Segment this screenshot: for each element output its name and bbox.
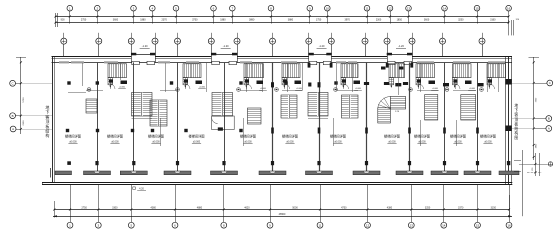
staircase lower flight x=131.5-152 [132, 93, 153, 117]
svg-text:A: A [548, 127, 550, 131]
svg-text:C: C [549, 81, 551, 85]
svg-text:11: 11 [318, 223, 321, 227]
structural axis line and footing at x=477.5 [464, 62, 491, 174]
right edge wall black fills [505, 79, 511, 131]
axis circle x=177.5 [175, 33, 181, 57]
svg-text:14: 14 [443, 6, 447, 10]
svg-text:46500: 46500 [279, 213, 286, 216]
svg-text:±0.000: ±0.000 [454, 141, 462, 144]
bottom right corner axis circle [548, 162, 552, 166]
small column squares upper row [67, 81, 483, 87]
svg-text:-1.20: -1.20 [398, 45, 404, 48]
landing box below stair B2 [212, 116, 235, 131]
svg-text:-0.060: -0.060 [260, 88, 267, 90]
svg-text:楼梯间详图: 楼梯间详图 [282, 134, 298, 139]
svg-text:4380: 4380 [387, 207, 393, 210]
window symbols in top band [59, 61, 505, 63]
staircase upper flight x=341-358 [341, 64, 358, 88]
staircase lower flight x=424.6-437.8 [425, 95, 438, 120]
svg-text:下: 下 [514, 109, 518, 113]
staircase lower flight x=212-232.5 [212, 93, 233, 117]
grid circle top axis 8 [268, 5, 274, 23]
bottom right corner dimension detail [519, 150, 548, 216]
svg-text:楼梯间详图: 楼梯间详图 [148, 134, 164, 139]
interior horizontal ledges [68, 91, 476, 119]
staircase lower flight x=86-97 [86, 99, 97, 113]
entry bay between axes 387 and 412 [387, 45, 413, 64]
svg-text:3160: 3160 [490, 19, 496, 22]
svg-text:1880: 1880 [220, 19, 226, 22]
bottom grid circle axis 13 [408, 185, 414, 229]
svg-text:1880: 1880 [140, 19, 146, 22]
svg-text:3150: 3150 [491, 207, 497, 210]
svg-text:16: 16 [507, 6, 511, 10]
staircase lower flight x=308-328 [308, 93, 328, 117]
grid circle top axis 4 [150, 5, 156, 23]
staircase upper flight x=108-126.5 [108, 64, 127, 88]
room label at x=156 [148, 134, 164, 144]
grid circle top axis 12 [387, 5, 393, 23]
svg-text:楼梯间详图: 楼梯间详图 [189, 134, 205, 139]
axis circle x=63.8 [61, 33, 67, 57]
left vertical dimension line [16, 57, 52, 134]
axis circle x=272.5 [270, 33, 276, 57]
grid circle top axis 5 [173, 5, 179, 23]
room label at x=338 [330, 134, 346, 144]
grid circle top axis 1 [67, 5, 73, 23]
svg-text:图: 图 [514, 136, 518, 140]
svg-text:C: C [12, 82, 14, 86]
structural axis line and footing at x=272.5 [259, 62, 286, 174]
entry bay between axes 308.8 and 331.3 [309, 45, 332, 64]
left axis circle C [10, 80, 21, 86]
building right edge wall [505, 56, 507, 185]
spiral staircase central unit [378, 97, 406, 124]
svg-text:±0.000: ±0.000 [69, 141, 77, 144]
svg-text:3970: 3970 [344, 19, 350, 22]
svg-text:11: 11 [365, 6, 368, 10]
structural axis line and footing at x=366.5 [353, 62, 380, 174]
bottom grid circle axis 9 [267, 185, 273, 229]
structural axis line and footing at x=224 [211, 62, 238, 174]
room label at x=73 [65, 134, 81, 144]
svg-text:10: 10 [326, 6, 330, 10]
svg-text:±0.000: ±0.000 [193, 141, 201, 144]
staircase upper flight x=282-300 [282, 64, 300, 88]
axis circle x=237 [234, 33, 240, 63]
bottom grid circle axis 12 [365, 185, 371, 229]
staircase lower flight x=281-297 [281, 95, 297, 118]
toilet fixtures [87, 88, 484, 92]
svg-text:3880: 3880 [288, 19, 294, 22]
right end footing [499, 161, 521, 175]
svg-text:顶: 顶 [514, 117, 518, 122]
axis circle x=131.3 [128, 33, 134, 63]
structural axis line and footing at x=319 [306, 62, 333, 174]
staircase upper flight x=183-201 [183, 64, 201, 88]
top dimension texts [61, 19, 496, 22]
bottom grid circle axis 6 [172, 185, 178, 229]
bottom grid circle axis 14 [441, 185, 447, 229]
svg-text:5700: 5700 [23, 97, 25, 103]
svg-text:1850: 1850 [397, 19, 403, 22]
svg-text:A: A [12, 127, 14, 131]
svg-text:13: 13 [407, 6, 411, 10]
bottom grid circle axis 16 [506, 185, 512, 229]
building left edge wall [52, 56, 54, 183]
svg-text:楼梯间详图: 楼梯间详图 [414, 134, 430, 139]
top right dimension tail [509, 19, 520, 35]
top dimension line upper [55, 13, 509, 27]
svg-text:5000: 5000 [292, 207, 298, 210]
svg-text:3600: 3600 [113, 19, 119, 22]
right axis circle C [534, 80, 553, 86]
small level labels in units [118, 87, 476, 91]
entry bay between axes 131.3 and 155 [131, 45, 155, 64]
svg-text:4880: 4880 [197, 207, 203, 210]
svg-text:-0.060: -0.060 [119, 87, 126, 89]
svg-text:地: 地 [514, 103, 518, 108]
svg-text:±0.000: ±0.000 [418, 141, 426, 144]
svg-text:15: 15 [475, 6, 479, 10]
bottom grid circle axis 11 [317, 185, 323, 229]
svg-text:3880: 3880 [249, 19, 255, 22]
bottom dimension texts and ticks [53, 207, 510, 217]
staircase lower flight x=341.5-358 [342, 95, 359, 118]
entry bay between axes 211.3 and 237 [211, 45, 237, 64]
svg-text:板: 板 [514, 121, 518, 126]
left axis circle B [10, 113, 21, 119]
grid circle top axis 6 [211, 5, 217, 23]
svg-text:客: 客 [514, 112, 518, 117]
svg-text:2750: 2750 [81, 19, 87, 22]
staircase lower flight x=460.8-475.6 [461, 95, 476, 120]
grid circle top axis 3 [131, 5, 137, 23]
bottom grid circle axis 1 [67, 185, 73, 229]
room label at x=392 [384, 134, 400, 144]
axis circle x=155 [152, 33, 158, 63]
central unit wall fills [381, 67, 404, 70]
svg-text:楼梯间详图: 楼梯间详图 [384, 134, 400, 139]
svg-text:±0.000: ±0.000 [244, 141, 252, 144]
room label at x=196.5 [189, 134, 205, 144]
room label at x=115 [107, 134, 123, 144]
axis circle x=412 [409, 33, 415, 63]
axis circle x=308.8 [306, 33, 312, 63]
grid circle top axis 9 [307, 5, 313, 23]
svg-text:3300: 3300 [112, 207, 118, 210]
left axis circle A [10, 126, 21, 132]
interior wall fill blocks [109, 80, 492, 85]
top dimension line lower [55, 22, 510, 24]
svg-text:14: 14 [442, 223, 446, 227]
building inner top wall line [52, 62, 513, 64]
svg-text:3250: 3250 [425, 207, 431, 210]
svg-text:±0.000: ±0.000 [484, 141, 492, 144]
bottom grid circle axis 15 [475, 185, 481, 229]
level label near bottom [133, 187, 146, 191]
svg-text:±0.000: ±0.000 [152, 141, 160, 144]
staircase lower flight x=247.5-261 [248, 108, 262, 124]
structural axis line and footing at x=409.5 [396, 62, 423, 174]
svg-text:4380: 4380 [150, 207, 156, 210]
bottom dimension lines [53, 195, 512, 218]
interior partition walls [83, 63, 499, 146]
svg-text:-1.20: -1.20 [319, 45, 325, 48]
grid circle top axis 14 [442, 5, 448, 23]
svg-text:构: 构 [514, 131, 518, 136]
svg-text:2100: 2100 [23, 120, 25, 126]
svg-text:4620: 4620 [244, 207, 250, 210]
staircase lower flight x=150-167 [150, 100, 167, 126]
grid circle top axis 15 [474, 5, 480, 23]
door swing arcs [110, 84, 495, 89]
svg-text:3370: 3370 [458, 207, 464, 210]
svg-text:12: 12 [388, 6, 392, 10]
bay side wall fills below inner line (bays 3,4) [308, 63, 414, 87]
axis circle x=331.3 [328, 33, 334, 63]
right vertical dimension line [512, 57, 539, 160]
building top outer wall pair (with gaps at bays) [52, 57, 513, 59]
room label at x=488 [480, 134, 496, 144]
svg-text:±0.000: ±0.000 [286, 141, 294, 144]
structural axis line and footing at x=97 [84, 62, 111, 174]
svg-text:-0.060: -0.060 [469, 88, 476, 90]
axis circle x=98.8 [96, 33, 102, 57]
svg-text:13: 13 [410, 223, 414, 227]
axis circle x=482 [479, 33, 485, 57]
svg-text:楼梯间详图: 楼梯间详图 [107, 134, 123, 139]
svg-text:构: 构 [45, 132, 49, 138]
svg-text:16: 16 [507, 223, 511, 227]
structural axis line and footing at x=444.5 [431, 62, 458, 174]
axis circle x=387 [384, 33, 390, 63]
svg-text:15: 15 [476, 223, 480, 227]
grid circle top axis 11 [364, 5, 370, 23]
svg-text:2300: 2300 [376, 19, 382, 22]
svg-text:4750: 4750 [341, 207, 347, 210]
bottom grid circle axis 8 [221, 185, 227, 229]
svg-text:3600: 3600 [424, 19, 430, 22]
structural axis line and footing at x=177.5 [164, 62, 191, 174]
isolated column square bottom left [67, 161, 71, 165]
svg-text:±0.000: ±0.000 [111, 141, 119, 144]
bottom grid circle axis 3 [95, 185, 101, 229]
svg-text:楼梯间详图: 楼梯间详图 [480, 134, 496, 139]
staircase upper flight x=487-505.5 [487, 64, 506, 88]
svg-text:楼梯间详图: 楼梯间详图 [240, 134, 256, 139]
staircase upper flight x=452.5-471 [453, 64, 472, 88]
svg-text:3250: 3250 [458, 19, 464, 22]
svg-text:2370: 2370 [161, 19, 167, 22]
svg-text:-0.060: -0.060 [355, 88, 362, 90]
svg-text:-1.20: -1.20 [223, 45, 229, 48]
svg-text:楼梯间详图: 楼梯间详图 [65, 134, 81, 139]
svg-text:3750: 3750 [192, 19, 198, 22]
left vertical title text [45, 104, 49, 138]
svg-text:±0.000: ±0.000 [334, 141, 342, 144]
room label at x=458 [450, 134, 466, 144]
svg-text:-0.060: -0.060 [199, 87, 206, 89]
svg-text:结: 结 [514, 126, 518, 131]
small column squares lower row [66, 128, 479, 134]
staircase upper flight x=416-434.5 [416, 64, 435, 88]
svg-text:-1.20: -1.20 [142, 45, 148, 48]
grid circle top axis 16 [506, 5, 512, 23]
right axis circle A [534, 126, 552, 132]
svg-text:±0.000: ±0.000 [388, 141, 396, 144]
structural axis line and footing at x=133.8 [120, 62, 147, 174]
svg-text:-0.060: -0.060 [296, 88, 303, 90]
svg-text:楼梯间详图: 楼梯间详图 [330, 134, 346, 139]
bottom grid circle axis 5 [128, 185, 134, 229]
room label at x=290 [282, 134, 298, 144]
svg-text:楼梯间详图: 楼梯间详图 [450, 134, 466, 139]
svg-text:B: B [12, 114, 14, 118]
staircase upper flight x=389-404.5 [389, 64, 405, 88]
right axis circle B [534, 116, 552, 122]
svg-text:2750: 2750 [81, 207, 87, 210]
svg-text:1750: 1750 [316, 19, 322, 22]
building bottom double line [42, 182, 512, 184]
svg-text:12: 12 [366, 223, 370, 227]
grid circle top axis 13 [406, 5, 412, 23]
staircase upper flight x=244-263.5 [244, 64, 264, 88]
axis circle x=211.3 [208, 33, 214, 63]
svg-text:-0.060: -0.060 [432, 88, 439, 90]
right vertical title text [514, 103, 518, 140]
left corner footing [51, 168, 72, 178]
axis circle x=365 [362, 33, 368, 57]
grid circle top axis 10 [325, 5, 331, 23]
grid circle top axis 7 [230, 5, 236, 23]
svg-text:B: B [548, 117, 550, 121]
svg-text:4.20: 4.20 [139, 188, 144, 191]
grid circle top axis 2 [95, 5, 101, 23]
room label at x=422 [414, 134, 430, 144]
axis circle x=442.5 [440, 33, 446, 57]
room label at x=248 [240, 134, 256, 144]
